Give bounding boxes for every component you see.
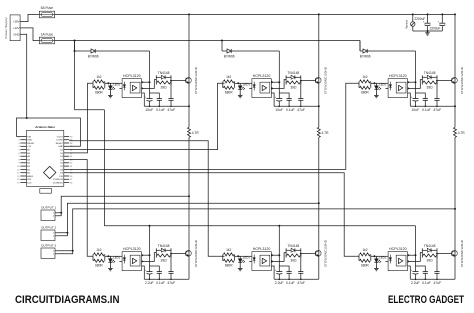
svg-text:8: 8: [18, 159, 20, 161]
svg-text:D11/MOSI: D11/MOSI: [53, 179, 63, 181]
resistor R3b 680R: [360, 86, 371, 89]
pin 2 anode U3: [385, 82, 388, 84]
svg-text:0.1uF: 0.1uF: [156, 281, 165, 285]
svg-text:39Ω: 39Ω: [290, 258, 297, 262]
node DC+ bus tap varistor: [412, 13, 414, 15]
capacitor C7 2200uF: [427, 14, 429, 23]
wire DC+ bus from fuse F1: [55, 13, 455, 15]
resistor R4b 680R: [94, 259, 105, 262]
LED indicator LED5: [239, 256, 241, 258]
node DC+ bus tap C7: [427, 13, 429, 15]
svg-text:11: 11: [17, 169, 20, 171]
pin left 1 VIN Arduino: [20, 135, 26, 137]
svg-text:STGW30NC120HD: STGW30NC120HD: [194, 67, 198, 94]
wire emitter rail driver 3: [410, 105, 455, 107]
node emitter rail junction leg 3: [454, 105, 456, 107]
wire to diode D1: [75, 50, 92, 52]
wire +12V to fuse F2: [24, 28, 39, 41]
pin 7 Vout U4 wire to gate network: [142, 253, 157, 262]
svg-text:1k2: 1k2: [96, 248, 101, 252]
resistor R3g 39R gate: [423, 81, 437, 84]
wire to diode D2: [222, 50, 227, 52]
capacitor C5c 47uF: [300, 254, 302, 272]
pin 5 Vee U2 wire to emitter rail: [271, 93, 274, 106]
wire +28V to fuse F1: [24, 14, 39, 21]
resistor R6a 1k2: [358, 254, 360, 260]
node DC+ bus tap C8: [441, 13, 443, 15]
node DC+ bus tap leg 3: [454, 13, 456, 15]
op-amp U6 HCPL3120 gate driver: [388, 252, 407, 271]
node junction diode 1 branch: [74, 50, 76, 52]
capacitor C3c 47uF: [436, 81, 438, 99]
wire leg 1 phase segment and low-side: [188, 137, 190, 279]
pin 7 Vout U1 wire to gate network: [142, 80, 157, 89]
resistor R3e 4.7R: [454, 127, 457, 137]
LED indicator LED3: [375, 83, 377, 85]
wire OUTPUT 1 pin1 to phase leg 1: [57, 196, 189, 213]
resistor R5a 1k2: [222, 254, 224, 260]
ground LED5: [239, 267, 241, 269]
svg-text:STGW30NC120HD: STGW30NC120HD: [460, 240, 464, 267]
svg-text:2.2uF: 2.2uF: [145, 281, 154, 285]
pin 8 Vcc U3 wire to supply rail: [408, 81, 416, 83]
svg-text:CIRCUITDIAGRAMS.IN: CIRCUITDIAGRAMS.IN: [15, 294, 120, 306]
svg-text:BYW96: BYW96: [224, 55, 235, 59]
wire gate to IGBT Q3: [437, 80, 452, 82]
node DC+ bus tap leg 2: [318, 13, 320, 15]
svg-text:A1: A1: [27, 168, 30, 171]
pin right 25 D3 Arduino: [64, 152, 69, 154]
svg-text:39Ω: 39Ω: [161, 85, 168, 89]
resistor R4a 1k2: [92, 254, 94, 260]
pin 2 anode U1: [119, 82, 122, 84]
diode D2g TN4148 gate discharge: [285, 75, 287, 84]
pin left 2 GND Arduino: [20, 139, 26, 141]
svg-text:TN4148: TN4148: [424, 244, 436, 248]
wire 12V drop to diode D2: [221, 41, 223, 52]
svg-text:39Ω: 39Ω: [290, 85, 297, 89]
pin right 28 RESET Arduino: [64, 142, 69, 144]
svg-text:D7: D7: [60, 166, 64, 168]
wire varistor block bottom rail: [413, 30, 443, 32]
svg-text:+12V: +12V: [13, 26, 20, 30]
svg-text:STGW30NC120HD: STGW30NC120HD: [324, 240, 328, 267]
wire emitter rail driver 5: [274, 278, 319, 280]
wire emitter rail driver 6: [410, 278, 455, 280]
pin 7 Vout U3 wire to gate network: [408, 80, 423, 89]
node input junction driver 1: [107, 82, 109, 84]
wire input node to optocoupler U3: [371, 82, 386, 84]
svg-text:5A Fuse: 5A Fuse: [41, 6, 54, 10]
svg-text:OUTPUT 1: OUTPUT 1: [41, 206, 57, 210]
svg-text:10uF: 10uF: [411, 108, 419, 112]
svg-text:9: 9: [18, 163, 20, 165]
pin right 20 D8 Arduino: [64, 168, 69, 170]
svg-text:3: 3: [18, 143, 20, 145]
svg-text:Arduino Nano: Arduino Nano: [35, 125, 55, 129]
resistor R1e 4.7R: [188, 127, 191, 137]
wire leg 2 to resistor: [318, 106, 320, 127]
svg-text:GND: GND: [27, 140, 32, 142]
capacitor C3b 0.1uF: [423, 98, 428, 100]
pin 2 anode U2: [249, 82, 252, 84]
svg-text:14: 14: [17, 179, 20, 181]
pin 2 anode U6: [385, 255, 388, 257]
svg-text:2.2uF: 2.2uF: [411, 281, 420, 285]
wire leg 1 high-side collector-emitter: [188, 14, 190, 106]
svg-text:680R: 680R: [225, 263, 233, 267]
svg-text:30: 30: [70, 136, 73, 138]
wire D0 row signal to driver 5 input: [69, 141, 224, 256]
LED indicator LED2: [239, 83, 241, 85]
svg-text:RESET: RESET: [56, 143, 64, 145]
capacitor C5a 10uF: [278, 266, 280, 272]
node input junction driver 5: [237, 255, 239, 257]
svg-text:TN4148: TN4148: [288, 71, 300, 75]
svg-text:4.7R: 4.7R: [322, 131, 330, 135]
capacitor C1c 47uF: [170, 81, 172, 99]
pin right 17 D11/MOSI Arduino: [64, 178, 69, 180]
op-amp U2 HCPL3120 gate driver: [252, 79, 271, 98]
pin left 12 A0 Arduino: [20, 172, 26, 174]
svg-text:D2: D2: [60, 150, 64, 152]
pin left 6 A6 Arduino: [20, 152, 26, 154]
resistor R2e 4.7R: [317, 127, 320, 137]
wire leg 3 phase segment and low-side: [454, 137, 456, 279]
wire D2 signal to driver 2 input: [69, 83, 224, 149]
svg-text:6: 6: [18, 153, 20, 155]
capacitor C2a 10uF: [278, 93, 280, 99]
pin 7 Vout U5 wire to gate network: [271, 253, 286, 262]
node phase 2 tap: [318, 202, 320, 204]
varistor RV1: [412, 14, 414, 21]
capacitor C2b 0.1uF: [287, 98, 292, 100]
node tap on 12V bus for driver 2: [221, 40, 223, 42]
node tap on low-side 12V line for driver 4: [149, 225, 151, 227]
svg-text:ELECTRO GADGET: ELECTRO GADGET: [388, 294, 464, 306]
svg-text:OUTPUT 3: OUTPUT 3: [41, 244, 57, 248]
wire OUTPUT 2 pin1 to phase leg 2: [57, 203, 319, 233]
wire 12V drop to diode D1: [74, 41, 76, 52]
svg-text:LED1: LED1: [243, 255, 250, 259]
wire OUTPUT 1 pin2 join: [57, 213, 61, 216]
node GND junction on Arduino loop: [26, 117, 28, 119]
wire 12V bus drop: [74, 41, 76, 110]
wire OUTPUT 3 pin2 join: [57, 251, 72, 254]
svg-text:16: 16: [70, 183, 73, 185]
svg-text:10: 10: [17, 166, 20, 168]
pin 2 OUTPUT 2: [55, 235, 57, 237]
svg-text:D3: D3: [60, 153, 64, 155]
node input junction driver 3: [373, 82, 375, 84]
wire supply drop driver 5: [278, 226, 280, 266]
svg-text:47uF: 47uF: [167, 281, 175, 285]
wire OUTPUT 3 pin1 to phase leg 3: [57, 209, 455, 251]
node OUTPUT 3 pin merge: [72, 250, 74, 252]
diode D6g TN4148 gate discharge: [421, 248, 423, 257]
node tap on 12V bus for driver 1: [74, 40, 76, 42]
pin 8 Vcc U2 wire to supply rail: [271, 81, 279, 83]
diode D3 BYW96: [363, 49, 367, 53]
node input junction driver 2: [237, 82, 239, 84]
node OUTPUT 1 pin merge: [60, 212, 62, 214]
svg-text:2.2uF: 2.2uF: [275, 281, 284, 285]
svg-text:TN4148: TN4148: [288, 244, 300, 248]
pin 5 Vee U3 wire to emitter rail: [408, 93, 411, 106]
resistor R5b 680R: [223, 259, 234, 262]
pin 5 Vee U5 wire to emitter rail: [271, 266, 274, 279]
pin 2 OUTPUT 3: [55, 253, 57, 255]
pin 5 Vee U4 wire to emitter rail: [142, 266, 145, 279]
op-amp U3 HCPL3120 gate driver: [388, 79, 407, 98]
svg-text:680R: 680R: [361, 90, 369, 94]
pin GND power supply: [20, 33, 24, 35]
wire emitter rail driver 2: [274, 105, 319, 107]
svg-text:GND: GND: [58, 146, 63, 148]
svg-text:HCPL3120: HCPL3120: [389, 74, 407, 78]
diode D1g TN4148 gate discharge: [155, 75, 157, 84]
ground LED3: [375, 94, 377, 96]
svg-text:BYW96: BYW96: [88, 55, 99, 59]
svg-text:5: 5: [18, 150, 20, 152]
wire D5 signal to driver 4 input: [69, 160, 93, 257]
resistor R5g 39R gate: [287, 254, 301, 257]
ground LED4: [109, 267, 111, 269]
capacitor C3a 10uF: [415, 93, 417, 99]
wire input node to optocoupler U4: [105, 255, 120, 257]
svg-text:0.1uF: 0.1uF: [422, 281, 431, 285]
svg-text:680R: 680R: [361, 263, 369, 267]
svg-text:D4: D4: [60, 156, 64, 158]
svg-text:TN4148: TN4148: [158, 244, 170, 248]
pin right 18 D10 Arduino: [64, 175, 69, 177]
LED indicator LED6: [375, 256, 377, 258]
svg-text:A6: A6: [27, 152, 30, 155]
capacitor C4a 10uF: [149, 266, 151, 272]
svg-text:A5: A5: [27, 155, 30, 158]
svg-text:12: 12: [17, 173, 20, 175]
svg-text:2200uF: 2200uF: [414, 17, 425, 21]
wire local supply rail driver 6: [416, 266, 426, 272]
svg-text:TN4148: TN4148: [424, 71, 436, 75]
transistor Q3 STGW30NC120HD IGBT: [452, 77, 458, 83]
svg-text:1A Fuse: 1A Fuse: [41, 33, 54, 37]
svg-text:LED1: LED1: [243, 82, 250, 86]
svg-text:24: 24: [70, 156, 73, 158]
wire 12V bus from fuse F2: [55, 40, 360, 42]
svg-text:4.7R: 4.7R: [458, 131, 466, 135]
wire OUTPUT 2 pin2 join: [57, 233, 67, 236]
wire input node to optocoupler U5: [235, 255, 250, 257]
pin left 3 RESET Arduino: [20, 142, 26, 144]
wire D8 signal to driver 3 input: [69, 83, 359, 169]
wire gate to IGBT Q4: [171, 253, 186, 255]
svg-text:15: 15: [17, 183, 20, 185]
svg-text:28: 28: [70, 143, 73, 145]
pin 3 cathode U4: [119, 260, 122, 262]
svg-text:17: 17: [70, 179, 73, 181]
wire supply drop driver 4: [149, 226, 151, 266]
svg-text:LED1: LED1: [113, 82, 120, 86]
wire to diode D3: [360, 50, 363, 52]
wire gate to IGBT Q2: [301, 80, 316, 82]
capacitor C6a 10uF: [415, 266, 417, 272]
wire local supply rail driver 2: [279, 93, 289, 99]
wire leg 1 to resistor: [188, 106, 190, 127]
pin right 19 D9 Arduino: [64, 172, 69, 174]
svg-text:2200uF: 2200uF: [430, 26, 441, 30]
svg-text:LED1: LED1: [113, 255, 120, 259]
pin 2 anode U5: [249, 255, 252, 257]
svg-text:47uF: 47uF: [433, 108, 441, 112]
svg-text:680R: 680R: [225, 90, 233, 94]
svg-text:D1/TX: D1/TX: [57, 136, 64, 138]
pin +28V power supply: [20, 21, 24, 23]
pin right 30 D1/TX Arduino: [64, 135, 69, 137]
svg-text:LED1: LED1: [379, 255, 386, 259]
diode D2 BYW96: [227, 49, 231, 53]
svg-text:STGW30NC120HD: STGW30NC120HD: [460, 67, 464, 94]
svg-text:D0/RX: D0/RX: [57, 140, 64, 142]
capacitor C5b 0.1uF: [287, 271, 292, 273]
diode D5g TN4148 gate discharge: [285, 248, 287, 257]
svg-text:D13: D13: [27, 183, 32, 185]
wire isolated supply vertical driver 2: [278, 51, 280, 93]
svg-text:A2: A2: [27, 165, 30, 168]
pin right 29 D0/RX Arduino: [64, 139, 69, 141]
node OUTPUT 2 pin merge: [66, 232, 68, 234]
svg-text:10uF: 10uF: [275, 108, 283, 112]
node phase 1 tap: [188, 195, 190, 197]
pin left 5 A7 Arduino: [20, 149, 26, 151]
wire D9 signal to driver 6 input: [69, 173, 359, 257]
wire local supply rail driver 1: [150, 93, 160, 99]
transistor Q4 STGW30NC120HD IGBT: [186, 250, 192, 256]
wire leg 2 phase segment and low-side: [318, 137, 320, 279]
resistor R1g 39R gate: [157, 81, 171, 84]
wire emitter rail driver 4: [144, 278, 189, 280]
wire leg 2 high-side collector-emitter: [318, 14, 320, 106]
svg-text:A3: A3: [27, 162, 30, 165]
svg-text:3V3: 3V3: [27, 179, 32, 181]
wire low-side supply end drop driver 6: [415, 226, 417, 266]
capacitor C4c 47uF: [170, 254, 172, 272]
diode D1 BYW96: [91, 49, 95, 53]
wire local supply rail driver 3: [416, 93, 426, 99]
svg-text:HCPL3120: HCPL3120: [253, 247, 271, 251]
svg-text:Power Supply: Power Supply: [4, 17, 8, 39]
resistor R1b 680R: [94, 86, 105, 89]
svg-text:HCPL3120: HCPL3120: [123, 74, 141, 78]
svg-text:AREF: AREF: [27, 175, 33, 178]
wire local supply rail driver 5: [279, 266, 289, 272]
resistor R1a 1k2: [92, 81, 94, 87]
svg-text:47uF: 47uF: [167, 108, 175, 112]
resistor R2b 680R: [223, 86, 234, 89]
svg-text:39Ω: 39Ω: [161, 258, 168, 262]
pin left 4 +5V Arduino: [20, 145, 26, 147]
svg-text:18: 18: [70, 176, 73, 178]
svg-text:D10: D10: [59, 176, 64, 178]
svg-text:4.7R: 4.7R: [192, 131, 200, 135]
pin 3 cathode U3: [385, 87, 388, 89]
pin left 11 A1 Arduino: [20, 168, 26, 170]
transistor Q6 STGW30NC120HD IGBT: [452, 250, 458, 256]
node varistor rail center: [427, 30, 429, 32]
svg-text:LED1: LED1: [379, 82, 386, 86]
svg-text:Varistor: Varistor: [405, 19, 408, 28]
LED indicator LED1: [109, 83, 111, 85]
pin 3 cathode U5: [249, 260, 252, 262]
wire diode D2 to driver supply: [231, 50, 279, 52]
pin left 10 A2 Arduino: [20, 165, 26, 167]
svg-text:GND: GND: [13, 32, 19, 36]
pin right 26 D2 Arduino: [64, 149, 69, 151]
svg-text:BYW96: BYW96: [360, 55, 371, 59]
resistor R2g 39R gate: [287, 81, 301, 84]
svg-text:1k2: 1k2: [226, 75, 231, 79]
svg-text:47uF: 47uF: [297, 281, 305, 285]
svg-text:D5: D5: [60, 159, 64, 161]
wire gate to IGBT Q1: [171, 80, 186, 82]
wire Arduino ground loop VIN to GND pin: [17, 118, 81, 146]
wire diode D3 to driver supply: [367, 50, 415, 52]
wire 12V bus corner to diode D3: [359, 41, 361, 52]
svg-text:39Ω: 39Ω: [427, 85, 434, 89]
diode D3g TN4148 gate discharge: [421, 75, 423, 84]
capacitor C2c 47uF: [300, 81, 302, 99]
svg-text:1k2: 1k2: [226, 248, 231, 252]
pin right 16 D12/MISO Arduino: [64, 182, 69, 184]
capacitor C4b 0.1uF: [157, 271, 162, 273]
pin 2 anode U4: [119, 255, 122, 257]
op-amp U5 HCPL3120 gate driver: [252, 252, 271, 271]
svg-text:A0: A0: [27, 172, 30, 175]
op-amp U7 Arduino Nano module: [27, 130, 64, 186]
pin right 27 GND Arduino: [64, 145, 69, 147]
pin 5 Vee U1 wire to emitter rail: [142, 93, 145, 106]
capacitor C6b 0.1uF: [423, 271, 428, 273]
svg-text:+5V: +5V: [27, 146, 31, 148]
svg-text:+28V: +28V: [13, 20, 20, 24]
svg-text:0.1uF: 0.1uF: [156, 108, 165, 112]
wire gate to IGBT Q5: [301, 253, 316, 255]
resistor R6g 39R gate: [423, 254, 437, 257]
svg-text:7: 7: [18, 156, 20, 158]
pin 8 Vcc U6 wire to supply rail: [408, 254, 416, 256]
pin 3 cathode U6: [385, 260, 388, 262]
pin 8 Vcc U1 wire to supply rail: [142, 81, 150, 83]
pin left 15 D13 Arduino: [20, 182, 26, 184]
svg-text:10uF: 10uF: [145, 108, 153, 112]
node input junction driver 4: [107, 255, 109, 257]
svg-text:1k2: 1k2: [362, 75, 367, 79]
pin 3 cathode U2: [249, 87, 252, 89]
svg-text:STGW30NC120HD: STGW30NC120HD: [194, 240, 198, 267]
svg-text:21: 21: [70, 166, 73, 168]
svg-text:D9: D9: [60, 173, 64, 175]
svg-text:A7: A7: [27, 149, 30, 152]
pin left 14 3V3 Arduino: [20, 178, 26, 180]
wire diode D1 to driver supply: [95, 50, 149, 52]
resistor R6b 680R: [360, 259, 371, 262]
node phase 3 tap: [454, 208, 456, 210]
resistor R2a 1k2: [222, 81, 224, 87]
op-amp U4 HCPL3120 gate driver: [122, 252, 141, 271]
svg-text:680R: 680R: [95, 263, 103, 267]
svg-text:0.1uF: 0.1uF: [286, 108, 295, 112]
transistor Q1 STGW30NC120HD IGBT: [186, 77, 192, 83]
